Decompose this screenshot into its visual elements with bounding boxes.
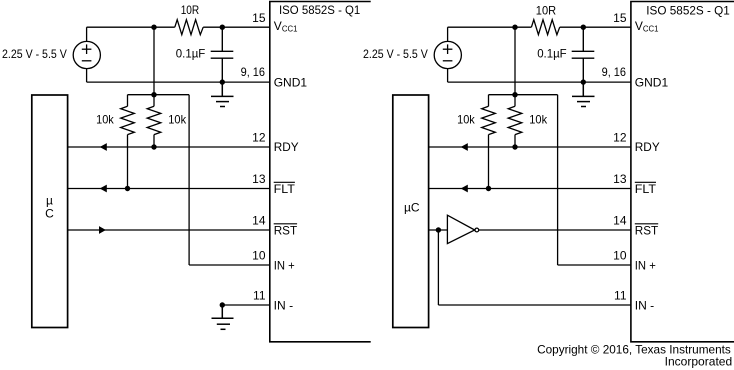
svg-text:2.25 V - 5.5 V: 2.25 V - 5.5 V	[363, 47, 428, 61]
resistor R6 10k (right pull-up, right circuit)	[508, 95, 522, 147]
svg-text:GND1: GND1	[635, 75, 669, 89]
svg-text:IN +: IN +	[274, 258, 295, 272]
svg-text:13: 13	[613, 172, 627, 186]
arrow on FLT (points left)	[100, 185, 107, 193]
wire: IN- stub	[222, 304, 269, 306]
wire: inverter output to RST pin 14	[479, 229, 631, 231]
svg-text:15: 15	[252, 11, 266, 25]
resistor R5 10k (left pull-up, right circuit)	[482, 95, 496, 189]
wire: resistor to VCC1 pin 15 (right)	[560, 26, 631, 28]
IC U1 box (ISO 5852S - Q1, left)	[270, 2, 371, 342]
svg-text:0.1µF: 0.1µF	[176, 46, 206, 60]
node: IN- ground junction	[220, 302, 225, 307]
resistor R2 10k (left pull-up)	[121, 95, 135, 189]
svg-text:0.1µF: 0.1µF	[537, 47, 567, 61]
wire: pull-up rail	[128, 94, 190, 96]
svg-text:10k: 10k	[96, 113, 115, 127]
resistor R4 10R	[531, 20, 559, 35]
wire: IN- vertical drop	[437, 230, 439, 305]
capacitor C2 0.1uF	[572, 27, 595, 82]
wire: RDY line (right)	[429, 146, 631, 148]
node: FLT pull-up junction (right)	[486, 186, 491, 191]
svg-text:12: 12	[252, 131, 266, 145]
wire: RDY line	[68, 146, 270, 148]
svg-text:9, 16: 9, 16	[241, 65, 266, 79]
svg-text:10: 10	[613, 249, 627, 263]
wire: GND1 rail	[87, 81, 270, 83]
node: pull-up rail junction (right)	[512, 92, 517, 97]
svg-text:GND1: GND1	[274, 75, 308, 89]
arrow on RST (points right)	[99, 226, 106, 234]
svg-text:15: 15	[613, 11, 627, 25]
resistor R1 10R	[175, 20, 203, 35]
wire: IN- horizontal to pin 11	[438, 304, 631, 306]
wire: IN+ vertical from rail (right)	[557, 95, 559, 265]
svg-text:13: 13	[252, 172, 266, 186]
wire: RST line	[68, 229, 270, 231]
ground symbol (top, right circuit)	[572, 82, 595, 106]
svg-text:RST: RST	[274, 223, 298, 237]
node: pull-up rail junction	[151, 92, 156, 97]
node: cap top junction (right)	[581, 25, 586, 30]
svg-text:2.25 V - 5.5 V: 2.25 V - 5.5 V	[2, 47, 67, 61]
ground symbol (top, left circuit)	[211, 82, 234, 106]
svg-text:RST: RST	[635, 223, 659, 237]
node: RDY pull-up junction	[151, 144, 156, 149]
ground symbol (IN-, left circuit)	[212, 305, 234, 329]
svg-text:FLT: FLT	[635, 182, 657, 196]
node: gnd rail junction	[220, 79, 225, 84]
svg-text:IN -: IN -	[274, 298, 293, 312]
node: cap top junction	[220, 25, 225, 30]
svg-text:ISO 5852S - Q1: ISO 5852S - Q1	[646, 3, 730, 17]
svg-text:IN +: IN +	[635, 258, 656, 272]
wire: IN+ horizontal to pin 10	[189, 264, 270, 266]
svg-text:14: 14	[613, 214, 627, 228]
svg-text:10k: 10k	[168, 113, 187, 127]
svg-text:14: 14	[252, 214, 266, 228]
svg-text:10: 10	[252, 249, 266, 263]
wire: source top lead (right)	[447, 27, 449, 41]
wire: Vcc top rail (right)	[448, 26, 532, 28]
wire: Vcc top rail (source to resistor)	[87, 26, 175, 28]
svg-text:9, 16: 9, 16	[602, 65, 627, 79]
voltage source V1 (left)	[73, 41, 100, 68]
wire: source bottom lead (right)	[447, 69, 449, 82]
capacitor C1 0.1uF	[211, 27, 234, 82]
svg-text:IN -: IN -	[635, 298, 654, 312]
wire: pull-up rail (right)	[489, 94, 558, 96]
wire: Vcc drop to pull-up rail (right)	[514, 27, 516, 95]
svg-text:RDY: RDY	[635, 140, 660, 154]
wire: IN+ vertical from rail	[188, 95, 190, 265]
svg-text:10k: 10k	[529, 113, 548, 127]
wire: resistor to VCC1 pin 15	[203, 26, 270, 28]
node: inverter input junction	[436, 227, 441, 232]
svg-text:µC: µC	[404, 201, 420, 215]
svg-text:11: 11	[253, 289, 266, 303]
svg-text:10R: 10R	[181, 3, 200, 17]
node: FLT pull-up junction	[125, 186, 130, 191]
arrow on FLT right (points left)	[461, 185, 468, 193]
wire: GND1 rail (right)	[448, 81, 631, 83]
microcontroller block (right)	[393, 95, 429, 328]
microcontroller block (left)	[32, 95, 68, 328]
voltage source V2 (right)	[434, 41, 461, 68]
node: RDY pull-up junction (right)	[512, 144, 517, 149]
svg-text:Incorporated: Incorporated	[665, 354, 733, 368]
wire: uC to inverter input	[429, 229, 448, 231]
svg-text:FLT: FLT	[274, 182, 296, 196]
svg-text:RDY: RDY	[274, 140, 299, 154]
microcontroller label (two lines)	[45, 193, 54, 220]
svg-text:12: 12	[613, 131, 627, 145]
wire: FLT line	[68, 188, 270, 190]
wire: source bottom lead	[86, 69, 88, 82]
svg-text:10R: 10R	[536, 4, 557, 18]
svg-text:C: C	[45, 206, 54, 220]
arrow on RDY (points left)	[100, 143, 107, 151]
svg-text:10k: 10k	[457, 113, 476, 127]
arrow on RDY right (points left)	[461, 143, 468, 151]
IC U2 box (ISO 5852S - Q1, right)	[631, 2, 734, 342]
wire: IN+ horizontal to pin 10 (right)	[558, 264, 631, 266]
svg-text:11: 11	[614, 289, 627, 303]
node: Vcc junction	[151, 25, 156, 30]
inverter U3	[447, 215, 478, 243]
svg-text:ISO 5852S - Q1: ISO 5852S - Q1	[279, 3, 361, 17]
node: gnd rail junction (right)	[581, 79, 586, 84]
node: Vcc junction (right)	[512, 25, 517, 30]
wire: source top lead	[86, 27, 88, 41]
wire: FLT line (right)	[429, 188, 631, 190]
resistor R3 10k (right pull-up)	[147, 95, 161, 147]
svg-text:µ: µ	[46, 193, 53, 207]
wire: Vcc drop to pull-up rail	[153, 27, 155, 95]
